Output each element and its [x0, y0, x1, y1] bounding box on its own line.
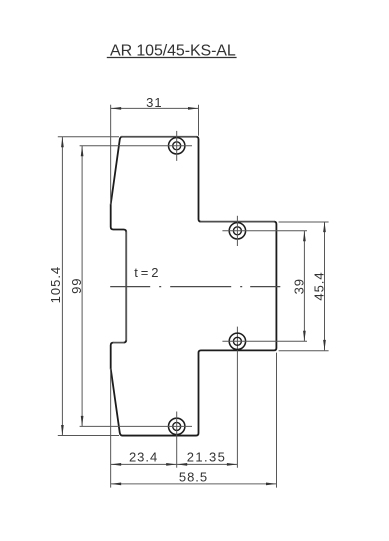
svg-text:31: 31 [146, 95, 162, 110]
svg-text:45.4: 45.4 [311, 271, 326, 300]
dimension 31 top [111, 95, 199, 204]
svg-text:AR 105/45-KS-AL: AR 105/45-KS-AL [110, 42, 236, 59]
hole H1 top [169, 138, 185, 154]
dimension 21.35 bottom [177, 450, 238, 466]
svg-text:21.35: 21.35 [187, 450, 227, 465]
centerline hole H4 horizontal [222, 340, 307, 342]
hole H4 right lower [229, 333, 245, 349]
hole H2 bottom [169, 418, 185, 434]
dimension 45.4 right outer [279, 222, 329, 351]
part outline dark edges [111, 137, 277, 436]
centerline hole H1 [80, 131, 192, 161]
dimension 58.5 bottom outer [111, 469, 277, 485]
label t=2 [134, 265, 158, 280]
part outline right-arm upper step edge (light) [200, 221, 274, 223]
centerline hole H2 [80, 412, 192, 468]
dimension 99 left inner [69, 146, 84, 427]
hole H3 right upper [229, 223, 245, 239]
extension line right bottom [276, 353, 278, 488]
dimension 105.4 left [48, 137, 119, 436]
extension line left bottom [110, 369, 112, 488]
dimension 23.4 bottom [111, 450, 177, 466]
svg-text:23.4: 23.4 [129, 450, 158, 465]
part outline notch vertical edge (light) [125, 231, 127, 340]
title AR 105/45-KS-AL [107, 42, 237, 59]
svg-text:58.5: 58.5 [179, 469, 208, 484]
centerline part axis dash-dot [110, 286, 280, 288]
centerline hole H3/H4 shared vertical [222, 216, 307, 468]
part outline notch lower step edge (light) [113, 342, 124, 344]
svg-text:99: 99 [69, 277, 84, 293]
svg-text:105.4: 105.4 [48, 266, 63, 304]
dimension 39 right inner [291, 231, 306, 341]
part outline top edge (light) [121, 136, 197, 138]
svg-text:39: 39 [291, 278, 306, 294]
svg-text:t = 2: t = 2 [134, 265, 158, 280]
